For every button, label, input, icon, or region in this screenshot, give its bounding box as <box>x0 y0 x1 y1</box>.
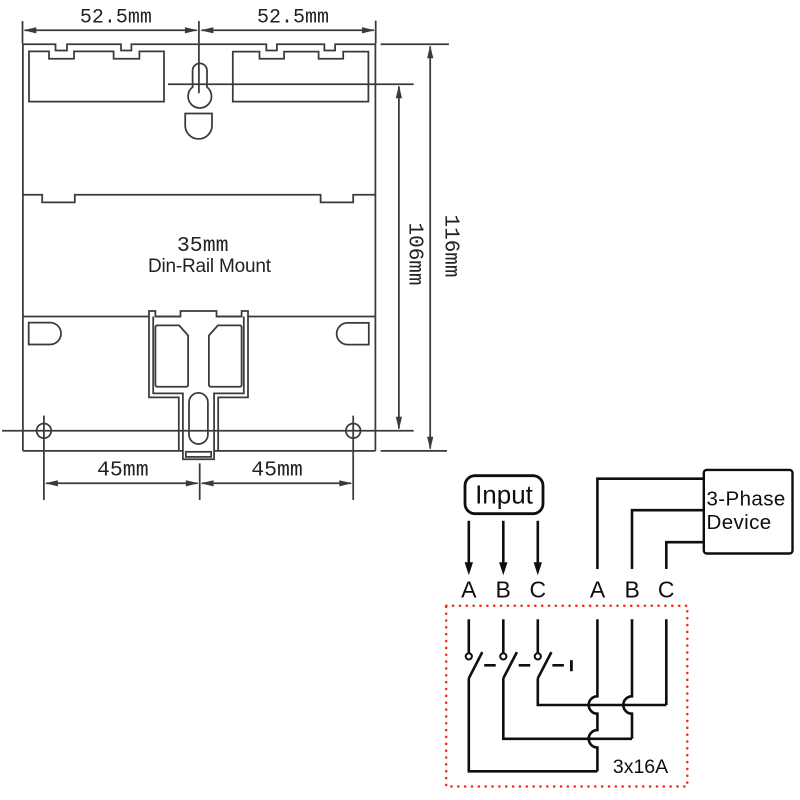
extension line hole right <box>352 416 354 500</box>
svg-text:A: A <box>461 576 477 602</box>
label 52.5mm right <box>257 7 329 30</box>
wire switch B lower <box>503 678 632 739</box>
section line upper <box>23 195 376 203</box>
din clip bottom tab <box>186 452 211 457</box>
din clip slot <box>189 393 208 444</box>
extension line top left <box>22 21 24 43</box>
wire switch A upper <box>467 619 470 653</box>
node A input <box>461 576 477 602</box>
mounting hole right <box>346 424 361 439</box>
input arrow A <box>465 521 473 576</box>
input arrow B <box>499 521 507 576</box>
node B output <box>625 576 640 602</box>
dimension 52.5mm right <box>200 27 375 33</box>
switch pivot B <box>500 653 506 659</box>
dimension 45mm left <box>45 480 199 486</box>
svg-text:Device: Device <box>707 511 772 534</box>
svg-text:3-Phase: 3-Phase <box>707 487 786 510</box>
dimension 106mm <box>396 85 402 430</box>
label 45mm left <box>97 458 149 482</box>
svg-text:Din-Rail Mount: Din-Rail Mount <box>148 256 272 277</box>
dimension 52.5mm left <box>23 27 198 33</box>
svg-text:35mm: 35mm <box>177 234 229 258</box>
wire switch C upper <box>536 619 539 653</box>
switch pivot C <box>535 653 541 659</box>
wire switch B upper <box>502 619 505 653</box>
svg-text:45mm: 45mm <box>97 458 149 482</box>
svg-text:C: C <box>529 576 546 602</box>
switch pivot A <box>466 653 472 659</box>
wire switch A lower <box>469 678 598 771</box>
dome cutout <box>185 114 212 139</box>
label Din-Rail Mount <box>148 256 272 277</box>
keyhole slot <box>188 63 211 108</box>
node B input <box>496 576 511 602</box>
svg-text:3x16A: 3x16A <box>613 756 668 778</box>
din clip inner wall <box>153 317 244 451</box>
din clip window left <box>155 325 188 386</box>
dimension 116mm <box>427 45 433 450</box>
node A output <box>590 576 606 602</box>
switch blade A <box>469 652 483 678</box>
section line lower <box>23 316 376 318</box>
wire device A <box>597 479 703 569</box>
label 3-Phase Device <box>707 487 786 533</box>
3-phase device box <box>704 470 793 554</box>
label 52.5mm left <box>80 7 152 30</box>
extension line right top <box>381 43 449 45</box>
node C output <box>658 576 675 602</box>
wire output C <box>665 619 668 705</box>
mounting hole centerline <box>2 430 414 432</box>
svg-text:106mm: 106mm <box>403 222 426 285</box>
extension line top center <box>198 21 200 93</box>
svg-text:45mm: 45mm <box>251 458 303 482</box>
breaker enclosure dotted <box>446 606 687 787</box>
node C input <box>529 576 546 602</box>
gang link end tick <box>570 660 573 671</box>
switch blade B <box>503 652 517 678</box>
label 116mm <box>439 214 462 277</box>
svg-text:52.5mm: 52.5mm <box>80 7 152 30</box>
label 106mm <box>403 222 426 285</box>
svg-text:52.5mm: 52.5mm <box>257 7 329 30</box>
gang link dash 2 <box>519 664 531 667</box>
label 45mm right <box>251 458 303 482</box>
gang link dash 3 <box>552 664 564 667</box>
wire switch C lower <box>538 678 667 705</box>
wire device C <box>666 542 704 569</box>
input arrow C <box>534 521 542 576</box>
wire device B <box>632 510 704 569</box>
extension line right bottom <box>381 450 447 452</box>
wire output A with hops <box>589 619 598 771</box>
svg-text:C: C <box>658 576 675 602</box>
din clip window right <box>209 325 242 386</box>
din clip outer <box>149 311 248 459</box>
pill right <box>337 323 369 345</box>
device outline <box>23 44 376 451</box>
extension line bottom center <box>199 463 201 500</box>
label Input <box>475 480 534 510</box>
pill left <box>29 323 61 345</box>
keyhole centerline horizontal <box>168 83 414 85</box>
input box <box>465 476 543 514</box>
terminal block left <box>29 51 164 101</box>
switch blade C <box>538 652 552 678</box>
gang link dash 1 <box>484 664 496 667</box>
mounting hole left <box>37 424 52 439</box>
svg-text:116mm: 116mm <box>439 214 462 277</box>
svg-text:B: B <box>625 576 640 602</box>
extension line hole left <box>43 416 45 500</box>
extension line top right <box>375 21 377 44</box>
svg-text:A: A <box>590 576 606 602</box>
dimension 45mm right <box>201 480 353 486</box>
terminal block right <box>233 52 369 102</box>
label 3x16A <box>613 756 668 778</box>
label 35mm <box>177 234 229 258</box>
wire output B with hop <box>623 619 632 739</box>
svg-text:B: B <box>496 576 511 602</box>
svg-text:Input: Input <box>475 480 534 510</box>
